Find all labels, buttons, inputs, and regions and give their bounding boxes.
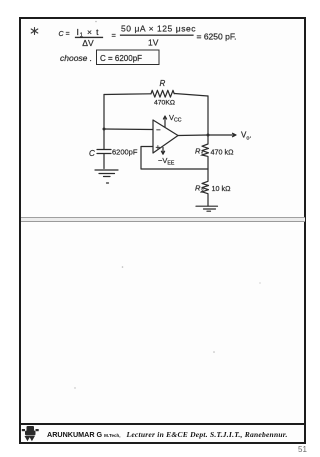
wire inverting input [104,128,153,131]
ground below R2 [196,206,218,211]
svg-text:Vo.: Vo. [241,131,252,142]
node junction at output / R1 [207,134,210,137]
resistor R1 [202,135,209,169]
scan specks [74,21,260,389]
svg-text:=: = [112,31,117,40]
svg-text:ΔV: ΔV [82,38,94,48]
svg-text:50 μA × 125 μsec: 50 μA × 125 μsec [121,24,196,34]
wire Vo [208,133,236,136]
svg-text:R: R [160,79,166,88]
svg-text:= 6250 pF.: = 6250 pF. [197,32,237,42]
footer divider line [21,423,304,425]
svg-text:C =: C = [59,31,70,38]
resistor R2 [202,169,209,206]
svg-text:470 kΩ: 470 kΩ [211,148,235,157]
resistor R [151,90,174,97]
Vcc lead [163,116,166,127]
asterisk mark [31,28,38,35]
svg-text:R2: R2 [195,184,203,195]
wire output [178,134,208,137]
choose value box [97,50,160,65]
node junction at C / inverting input [103,128,106,131]
wire [175,94,209,97]
footer logo [22,426,39,441]
wire feedback to + input [141,147,208,170]
svg-text:470KΩ: 470KΩ [154,100,175,107]
-VEE lead [161,148,164,155]
svg-text:ARUNKUMAR G M.Tech,: ARUNKUMAR G M.Tech, [47,430,121,439]
svg-text:−VEE: −VEE [158,156,175,167]
svg-text:−: − [156,126,161,135]
svg-text:1V: 1V [148,38,159,48]
footer text [47,430,288,439]
svg-text:C: C [89,149,95,158]
wire top feedback [104,93,151,96]
svg-text:C = 6200pF: C = 6200pF [100,54,142,63]
wire left vertical [103,95,105,150]
svg-text:6200pF: 6200pF [112,148,138,157]
op-amp U1 [153,120,178,153]
svg-text:R1: R1 [195,147,203,158]
svg-text:choose .: choose . [60,53,92,63]
ground below C [95,170,118,183]
wire right vertical [207,96,209,135]
svg-text:51: 51 [298,445,307,454]
svg-text:Lecturer in E&CE Dept. S.T.J.I: Lecturer in E&CE Dept. S.T.J.I.T., Raneb… [126,430,288,439]
svg-text:VCC: VCC [169,113,182,124]
capacitor C [97,150,111,169]
svg-text:+: + [156,143,161,152]
mid gray ruled divider [21,217,305,222]
svg-text:10 kΩ: 10 kΩ [212,184,232,193]
